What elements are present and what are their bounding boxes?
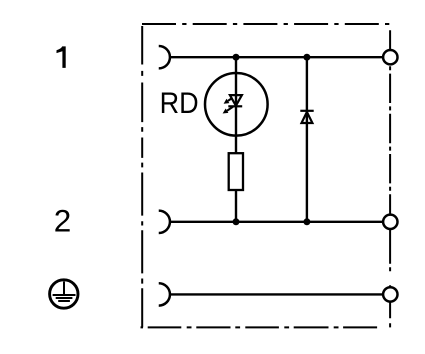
protective earth symbol — [50, 280, 78, 308]
wire row 2 — [170, 221, 384, 223]
border bottom — [141, 326, 387, 328]
border left — [141, 26, 143, 327]
junction dot row1 LED — [233, 54, 240, 61]
resistor R1 — [229, 153, 243, 190]
socket contact pin 1 (arc) — [159, 46, 170, 68]
svg-text:RD: RD — [160, 87, 199, 120]
enclosure border (dash-dot box) — [141, 24, 391, 327]
terminal circle PE — [383, 287, 397, 301]
socket contact PE (arc) — [159, 283, 170, 305]
svg-text:2: 2 — [54, 202, 72, 238]
wire row 1 — [170, 56, 384, 58]
wire row 3 (PE) — [170, 293, 384, 295]
LED triangle — [230, 95, 242, 106]
junction dot row1 diode — [303, 54, 310, 61]
terminal circle pin 2 — [383, 215, 397, 229]
LED cathode bar — [228, 105, 242, 107]
LED arrow 1 — [224, 98, 233, 104]
terminal circle pin 1 — [383, 50, 397, 64]
diode V1 triangle — [302, 112, 313, 123]
wire LED branch upper — [235, 57, 237, 153]
wire diode branch — [306, 57, 308, 222]
wire LED branch lower — [235, 190, 237, 222]
LED lamp circle U1 — [205, 73, 268, 136]
junction dot row2 diode — [303, 218, 310, 225]
pin label 1 — [57, 46, 66, 68]
border top — [142, 23, 390, 25]
border right — [389, 30, 391, 327]
socket contact pin 2 (arc) — [159, 211, 170, 233]
diode V1 cathode bar — [300, 110, 313, 112]
LED arrow 2 — [223, 107, 233, 114]
junction dot row2 LED — [233, 218, 240, 225]
